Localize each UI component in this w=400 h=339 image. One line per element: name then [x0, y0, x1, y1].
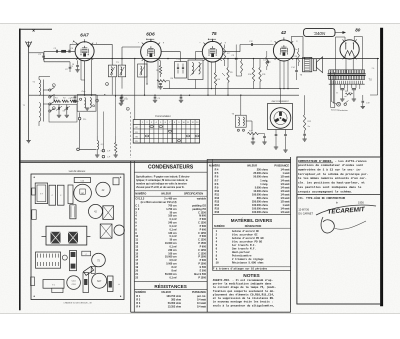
wire coil to switch	[43, 89, 48, 91]
wire socket bottom right	[285, 130, 287, 135]
wire 80 filament drops	[345, 59, 347, 74]
capacitor C6 ground	[74, 95, 76, 96]
commutator marks	[150, 126, 153, 128]
border frame top-left segment	[19, 28, 52, 30]
ground dial lamp	[95, 154, 99, 156]
wire pickup	[79, 112, 81, 117]
wire 6A7 screen drop	[91, 59, 93, 95]
interstage transformer T5 box	[235, 115, 246, 127]
wire 6A7 cathode drop	[84, 61, 86, 95]
chassis IF transformer 1	[103, 206, 114, 220]
junction dots AVC bus	[91, 95, 92, 96]
capacitor C12 coupling	[250, 43, 252, 46]
chassis power transformer	[35, 183, 47, 204]
chassis electrolytic C20	[49, 185, 56, 205]
vertical divider right of notes column	[290, 157, 292, 312]
volume potentiometer R9	[227, 68, 229, 83]
border frame right (thick)	[380, 28, 383, 306]
resistor R7b	[252, 68, 254, 82]
chassis narrow rect	[68, 185, 73, 204]
terminal CF lower	[102, 155, 105, 158]
wire 6A7 grid line	[44, 50, 75, 52]
chassis layout box	[31, 174, 124, 300]
switch tone contacts	[237, 129, 239, 131]
capacitor C17 with ground	[114, 77, 116, 97]
resistor R2	[62, 100, 69, 102]
chassis left edge rect	[31, 277, 35, 286]
ground CV1	[57, 114, 61, 116]
chassis electrolytic C21	[57, 185, 64, 205]
wire 75 top grid cap	[212, 39, 214, 41]
IF transformer T3 primary box	[108, 65, 116, 77]
output transformer T6	[303, 57, 312, 71]
vertical divider between condensateurs and resistances columns	[206, 159, 208, 312]
chassis corner rect	[113, 178, 119, 185]
resistor R11 filter	[346, 93, 353, 95]
capacitor C14 tone	[296, 59, 298, 70]
IF transformer T3 secondary box	[118, 65, 126, 77]
node position 2	[52, 107, 55, 110]
resistances middle table top rule	[207, 158, 290, 160]
wire antenna lead	[28, 48, 30, 141]
ground C20	[340, 98, 344, 100]
variable capacitor CV1 tuning	[58, 105, 60, 108]
wire 42 plate to output transformer	[290, 37, 292, 44]
capacitor C22	[235, 45, 237, 58]
wire screen bus	[163, 88, 299, 90]
power transformer T7	[328, 73, 366, 75]
chassis coil T1 rect	[43, 280, 64, 289]
wire 75 cathode drop	[207, 61, 209, 95]
wire 6D6 screen drop	[157, 60, 159, 88]
ground R13	[114, 154, 118, 156]
chassis gang capacitor	[46, 226, 87, 245]
capacitor C11 ground	[180, 95, 182, 96]
condensateurs bottom rule	[134, 281, 207, 283]
band switch contacts S1	[49, 89, 51, 91]
chassis mid vertical rect	[83, 273, 89, 293]
chassis tube 6D6	[92, 273, 107, 288]
tube V4 42	[273, 40, 294, 61]
antenna	[25, 41, 31, 47]
IF transformer T4 coil box	[188, 60, 203, 80]
resistor R19	[266, 57, 268, 67]
terminal pickup P.U. lower	[77, 148, 80, 151]
resistances middle table left rule	[212, 159, 214, 270]
wire 6D6 cathode drop	[146, 62, 148, 85]
wire resistor chain	[53, 95, 55, 101]
capacitor C19 with ground	[362, 95, 364, 101]
wire 42 cathode drop	[279, 61, 281, 89]
wire 6D6 top grid cap	[150, 39, 152, 41]
wire socket top	[280, 89, 282, 104]
wire drops to dial area	[96, 95, 98, 136]
wire socket bottom caps	[275, 130, 277, 135]
capacitor C7 ground on AVC bus	[121, 95, 123, 96]
chassis trimmer right	[108, 276, 114, 292]
wire 340N tick	[335, 32, 345, 34]
oscillator padder box	[138, 64, 148, 77]
chassis tube socket spare	[89, 204, 103, 218]
tube V2 6D6	[141, 41, 162, 62]
resistor R18	[241, 61, 243, 74]
capacitor C20 electrolytic	[340, 88, 344, 90]
loudspeaker	[313, 59, 316, 71]
pilot lamp	[337, 102, 341, 106]
tables bottom rule	[131, 311, 291, 313]
chassis tuning shaft circle	[62, 255, 67, 260]
border frame left	[19, 29, 21, 311]
signature Tecaremit	[327, 206, 366, 216]
chassis capacitor block	[82, 251, 91, 256]
chassis dial assembly	[36, 252, 61, 268]
wire terminal to lamp chain	[79, 148, 96, 150]
wire 75 second leg	[211, 62, 213, 89]
resistor R13	[297, 52, 299, 63]
tube V3 75	[202, 41, 223, 62]
tube V5 80 rectifier	[340, 40, 359, 59]
chassis volume pot	[70, 251, 77, 271]
dashed chassis boundary	[129, 112, 131, 158]
wire main plate bus	[44, 58, 379, 60]
ground socket left	[274, 146, 278, 148]
wire 42 screen	[287, 61, 289, 89]
wire 6D6 plate to T4	[161, 51, 180, 53]
terminal CF upper	[102, 149, 105, 152]
wire 42 mid leg	[283, 61, 285, 89]
wire speaker field	[330, 72, 332, 108]
vertical divider left of parts tables	[130, 161, 132, 312]
chassis bracket left	[32, 210, 36, 220]
wire bus drop to commutator table	[134, 59, 136, 120]
ground tone right	[262, 141, 266, 143]
ground antenna	[26, 140, 30, 142]
resistor R5 cathode	[159, 66, 161, 75]
wire T5 connections	[240, 95, 242, 115]
capacitor C4	[68, 50, 70, 53]
capacitor C5 with ground under 6A7	[77, 60, 79, 64]
wire 6A7 plate to T3	[91, 43, 112, 45]
capacitor C13	[266, 61, 271, 63]
capacitor C16 to ground	[264, 134, 266, 137]
chassis output transformer	[70, 205, 76, 219]
resistor R12 bleeder	[303, 115, 305, 131]
wire T4 to 75 grid	[194, 52, 196, 60]
ground socket right	[283, 149, 287, 151]
resistor R13 with ground	[115, 143, 117, 153]
ground T2	[85, 107, 89, 109]
chassis tube 42	[96, 182, 110, 196]
chassis resistor diagonal	[83, 266, 93, 275]
capacitor C15 to ground	[252, 134, 254, 138]
capacitor C3	[55, 50, 57, 53]
horizontal divider between schematic and tables	[19, 160, 290, 162]
resistor R6 diode load	[214, 73, 216, 86]
chassis tube 6A7	[67, 276, 81, 290]
variable capacitor CV2	[66, 105, 68, 108]
wire 75 plate coupling	[223, 51, 240, 53]
capacitor C21 electrolytic	[352, 88, 356, 90]
wire 6A7 second leg	[80, 60, 82, 80]
ground bleeder	[302, 138, 306, 140]
speaker socket box	[268, 104, 293, 130]
resistances middle bottom rule	[213, 214, 291, 216]
node position 5	[126, 107, 129, 110]
resistor R17	[157, 80, 166, 82]
wire 80 plates	[344, 37, 346, 41]
ground CV2	[65, 114, 69, 116]
resistor R8	[259, 68, 261, 82]
right column divider rule	[297, 194, 381, 196]
wire lower AVC bus	[29, 94, 299, 96]
resistor R7 diode load	[224, 48, 226, 61]
ground 6D6 cathode	[158, 86, 162, 88]
capacitor C9 ground on AVC bus	[154, 95, 156, 96]
materiel divers note	[213, 266, 291, 268]
node position 4	[106, 83, 109, 86]
capacitor C1	[43, 53, 45, 56]
chassis tube edge right	[114, 225, 124, 235]
wire 6D6 second leg	[144, 60, 146, 95]
tuning gang box outline	[49, 105, 77, 123]
mains leads	[330, 80, 332, 102]
wire 42 grid	[271, 44, 274, 46]
registration mark top-left	[33, 30, 35, 32]
wire HT right	[377, 59, 379, 95]
chassis small trimmer	[91, 266, 95, 273]
ground C19	[361, 105, 365, 107]
wire transformer secondary drops	[339, 84, 341, 88]
resistor R1	[54, 100, 61, 102]
capacitor C17 bleeder	[304, 131, 306, 134]
wire T3 to 6D6 grid	[121, 47, 123, 65]
coil T1 antenna	[39, 80, 41, 96]
chassis tube 80	[74, 184, 92, 202]
chassis IF transformer 2	[100, 224, 112, 238]
chassis tube 75	[92, 253, 106, 267]
IF transformer T4 trimmer box	[175, 62, 187, 79]
terminal pickup P.U. upper	[78, 117, 81, 120]
wire 6A7 top cap	[74, 42, 78, 45]
chassis mount dots	[34, 177, 35, 178]
resistor R4 grid stopper	[62, 50, 66, 52]
wire T3 bottom drops	[111, 77, 113, 95]
right column box	[297, 157, 381, 304]
capacitor C8 cathode bypass	[159, 83, 162, 85]
speaker socket plug P1 rear view	[270, 108, 291, 129]
node position 3	[96, 99, 99, 102]
capacitor C18	[298, 80, 300, 89]
ground C21	[352, 98, 356, 100]
node position 1	[52, 84, 55, 87]
resistor R3	[70, 100, 77, 102]
dial lamp chain	[97, 141, 98, 150]
ground C17	[119, 102, 123, 104]
chassis coil shield	[74, 178, 90, 183]
resistor R10 tone	[248, 132, 259, 134]
switch mains	[344, 103, 346, 105]
tube V1 6A7	[75, 42, 94, 61]
label box 340N	[304, 29, 335, 37]
wire grid return	[43, 51, 45, 62]
capacitor C2	[69, 66, 72, 68]
coil T2 oscillator	[77, 95, 96, 112]
wire T4 bottom drop	[194, 80, 196, 89]
ground tone left	[251, 141, 255, 143]
